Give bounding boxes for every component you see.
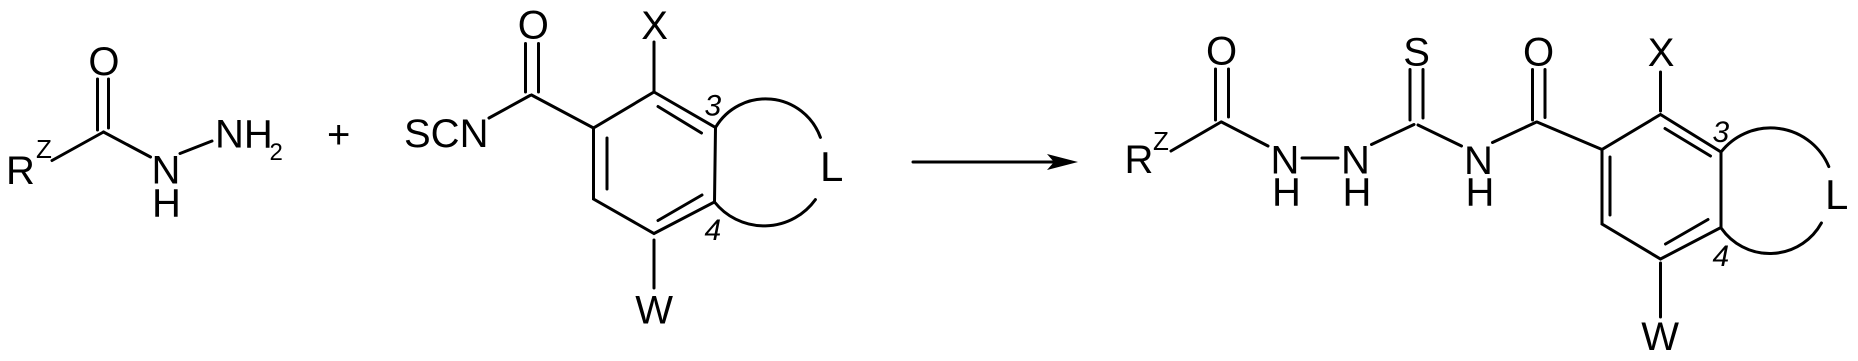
reaction arrow xyxy=(913,154,1078,170)
atom NH2 xyxy=(215,113,283,167)
svg-text:X: X xyxy=(641,4,668,48)
macrocycle arc1 upper ring2 xyxy=(1721,128,1829,167)
bond R2-C1' xyxy=(1171,122,1221,151)
svg-text:+: + xyxy=(327,113,350,157)
double bond C1'=O1' xyxy=(1216,69,1229,120)
svg-text:R: R xyxy=(1125,138,1154,182)
svg-text:H: H xyxy=(1272,170,1301,214)
bond N1-N(H2) xyxy=(180,141,212,154)
bond N4-C4' xyxy=(1493,122,1537,143)
svg-text:NH: NH xyxy=(215,113,273,157)
svg-text:2: 2 xyxy=(270,139,283,166)
svg-text:L: L xyxy=(820,143,843,190)
svg-text:3: 3 xyxy=(705,90,722,123)
svg-text:SCN: SCN xyxy=(404,112,488,156)
macrocycle arc2 lower ring2 xyxy=(1722,223,1822,254)
bond C1'-N2 xyxy=(1222,122,1269,146)
ring2 inner double bond bottom-right xyxy=(1666,220,1709,245)
bond N2-N3 xyxy=(1302,157,1338,160)
bond C3'-N4 xyxy=(1418,125,1462,146)
svg-text:R: R xyxy=(6,149,35,193)
bond R1-C1 xyxy=(52,132,104,161)
macrocycle arc2 lower ring1 xyxy=(715,200,816,226)
ring1 inner double bond top-right xyxy=(658,107,702,134)
svg-text:S: S xyxy=(1403,31,1430,75)
double bond C2=O2 xyxy=(526,44,539,93)
svg-text:Z: Z xyxy=(1153,126,1169,156)
svg-text:W: W xyxy=(635,289,673,333)
double bond C4'=O2' xyxy=(1533,70,1546,121)
svg-text:O: O xyxy=(1523,31,1554,75)
svg-text:W: W xyxy=(1641,315,1679,359)
svg-text:4: 4 xyxy=(705,214,722,247)
ring2 inner double bond left xyxy=(1609,157,1612,215)
benzene ring 2 outline xyxy=(1602,115,1721,260)
svg-text:O: O xyxy=(518,4,549,48)
svg-text:H: H xyxy=(152,182,181,226)
bond C2-ring1 xyxy=(532,95,594,128)
bond ring1-X1 xyxy=(653,42,656,91)
bond C4'-ring2 xyxy=(1537,122,1602,150)
svg-text:L: L xyxy=(1825,171,1848,218)
bond ring2-W2 xyxy=(1659,263,1662,317)
bond N3-C3' xyxy=(1372,125,1415,145)
svg-text:O: O xyxy=(1206,30,1237,74)
svg-text:H: H xyxy=(1343,170,1372,214)
double bond C3'=S xyxy=(1410,70,1423,121)
svg-text:O: O xyxy=(88,40,119,84)
benzene ring 1 outline xyxy=(594,92,716,234)
ring1 inner double bond left xyxy=(606,138,609,189)
macrocycle arc1 upper ring1 xyxy=(716,99,821,138)
svg-text:X: X xyxy=(1648,31,1675,75)
double bond C1=O1 xyxy=(98,79,109,130)
svg-text:Z: Z xyxy=(36,134,52,164)
bond ring2-X2 xyxy=(1659,72,1662,111)
svg-text:4: 4 xyxy=(1713,240,1730,273)
bond ring1-W1 xyxy=(653,240,656,288)
svg-text:H: H xyxy=(1466,171,1495,215)
ring1 inner double bond bottom-right xyxy=(658,195,702,221)
bond C1-N1 xyxy=(104,132,151,157)
bond SCN-C2 xyxy=(489,96,530,119)
ring2 inner double bond top-right xyxy=(1665,129,1711,157)
